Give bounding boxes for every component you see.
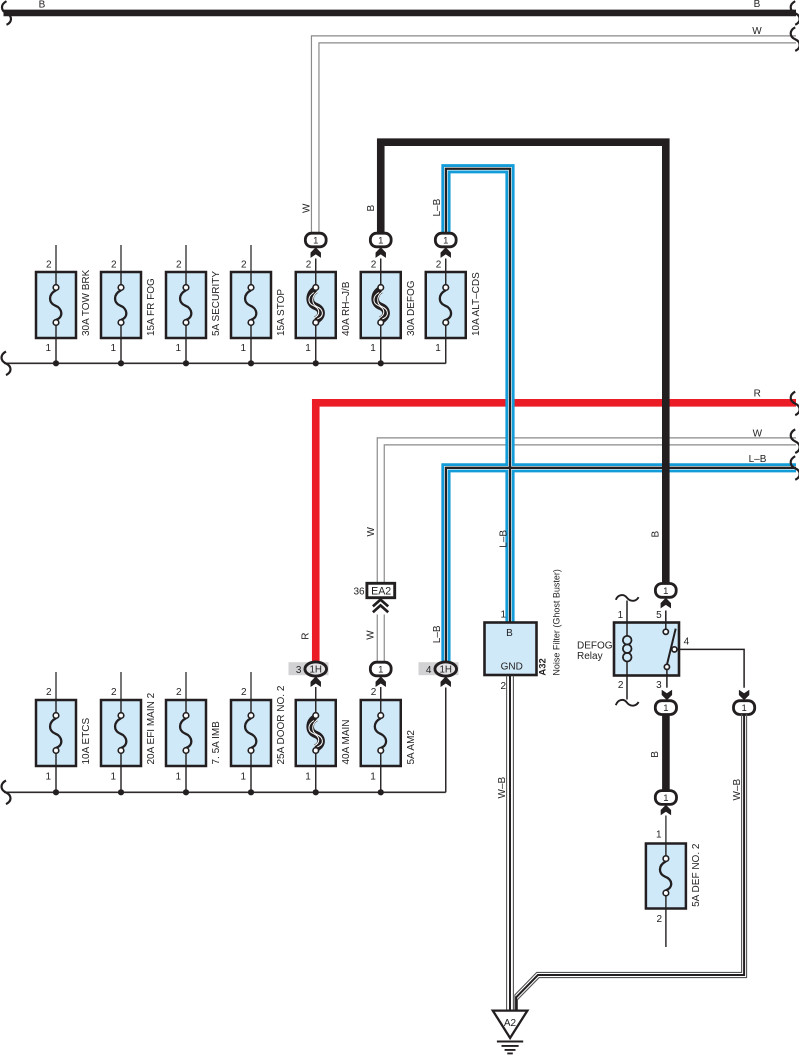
svg-text:L–B: L–B xyxy=(499,530,510,548)
wire L-B from 10A ALT-CDS to noise filter xyxy=(446,169,510,623)
fuse 5A AM2 xyxy=(361,687,417,792)
junction dot xyxy=(183,789,189,795)
svg-text:5A SECURITY: 5A SECURITY xyxy=(211,271,222,336)
svg-text:W–B: W–B xyxy=(732,779,743,801)
junction dot xyxy=(378,789,384,795)
wire W-B right to ground xyxy=(515,714,747,1011)
connector 4 1H (L-B wire) xyxy=(419,662,459,676)
svg-text:1: 1 xyxy=(240,771,246,782)
noise filter A32 box xyxy=(485,623,537,676)
connector 1 (W wire bottom) xyxy=(370,662,391,676)
svg-text:1: 1 xyxy=(45,771,51,782)
svg-text:L–B: L–B xyxy=(749,454,767,465)
svg-text:5A DEF NO. 2: 5A DEF NO. 2 xyxy=(691,843,702,907)
svg-text:1: 1 xyxy=(370,343,376,354)
svg-text:1: 1 xyxy=(618,610,624,621)
svg-text:15A STOP: 15A STOP xyxy=(276,289,287,336)
svg-text:36: 36 xyxy=(353,587,365,598)
relay DEFOG box xyxy=(577,623,679,676)
arrow down above pin3 connector xyxy=(662,690,672,701)
svg-text:1: 1 xyxy=(378,664,383,675)
svg-text:1: 1 xyxy=(500,610,506,621)
arrow up below 3 1H xyxy=(311,676,321,687)
L-B black cores xyxy=(446,468,796,663)
fuse 30A DEFOG xyxy=(361,259,417,364)
junction dot xyxy=(53,360,59,366)
svg-text:Noise Filter (Ghost Buster): Noise Filter (Ghost Buster) xyxy=(552,569,562,676)
svg-text:2: 2 xyxy=(371,260,377,271)
arrow up below connector xyxy=(661,805,671,816)
svg-text:1: 1 xyxy=(175,343,181,354)
connector 1 above fuse col (W wire) xyxy=(305,233,326,247)
relay pin 4 contact and wire right xyxy=(672,647,677,652)
wire B top bus xyxy=(4,0,797,13)
svg-text:W: W xyxy=(302,203,313,213)
svg-text:2: 2 xyxy=(241,260,247,271)
svg-text:2: 2 xyxy=(46,687,52,698)
svg-text:1: 1 xyxy=(240,343,246,354)
svg-text:40A RH–J/B: 40A RH–J/B xyxy=(341,281,352,336)
svg-text:2: 2 xyxy=(371,687,377,698)
arrow down above right connector xyxy=(739,690,749,701)
svg-text:B: B xyxy=(506,628,513,639)
relay coil xyxy=(623,636,632,662)
break symbol top B bus right xyxy=(791,1,799,25)
svg-text:3: 3 xyxy=(296,665,302,676)
svg-text:2: 2 xyxy=(618,680,624,691)
svg-text:20A EFI MAIN 2: 20A EFI MAIN 2 xyxy=(146,692,157,764)
junction dot xyxy=(118,789,124,795)
break symbol bottom bus left xyxy=(2,781,11,805)
svg-text:B: B xyxy=(366,205,377,212)
fuse 25A DOOR NO. 2 xyxy=(231,672,287,792)
junction dot xyxy=(378,360,384,366)
svg-text:1: 1 xyxy=(663,703,668,714)
svg-text:2: 2 xyxy=(176,687,182,698)
junction dot xyxy=(248,360,254,366)
svg-text:A2: A2 xyxy=(504,1018,517,1029)
svg-text:B: B xyxy=(650,751,661,758)
L-B white inner stripes xyxy=(446,468,796,663)
svg-text:15A FR FOG: 15A FR FOG xyxy=(146,278,157,336)
svg-text:1: 1 xyxy=(313,235,318,246)
connector 1 above fuse col (L-B wire) xyxy=(435,233,456,247)
svg-text:1: 1 xyxy=(663,586,668,597)
svg-text:2: 2 xyxy=(111,687,117,698)
svg-text:B: B xyxy=(754,0,761,10)
arrow up below connector 1 xyxy=(376,676,386,687)
arrow up below connector xyxy=(441,247,451,258)
wire W-B from noise filter GND to ground xyxy=(497,676,514,1011)
svg-text:1H: 1H xyxy=(439,665,452,676)
fuse 30A TOW BRK xyxy=(36,245,92,364)
junction dot xyxy=(313,360,319,366)
relay pin 2 wire and break xyxy=(626,661,628,699)
svg-text:2: 2 xyxy=(306,260,312,271)
svg-text:1: 1 xyxy=(370,771,376,782)
svg-text:7. 5A IMB: 7. 5A IMB xyxy=(211,721,222,765)
fuse 40A MAIN xyxy=(296,687,352,792)
svg-text:B: B xyxy=(651,531,662,538)
svg-text:L–B: L–B xyxy=(432,625,443,643)
svg-text:2: 2 xyxy=(656,914,662,925)
svg-text:4: 4 xyxy=(426,665,432,676)
svg-text:25A DOOR NO. 2: 25A DOOR NO. 2 xyxy=(276,685,287,764)
junction dot xyxy=(183,360,189,366)
wire to 5A DEF NO.2 xyxy=(665,816,667,844)
svg-text:1: 1 xyxy=(378,235,383,246)
svg-text:30A DEFOG: 30A DEFOG xyxy=(406,280,417,336)
connector 3 1H (R wire) xyxy=(289,662,329,676)
svg-text:W–B: W–B xyxy=(497,777,508,799)
arrow up below relay pin5 connector xyxy=(661,598,671,609)
svg-text:2: 2 xyxy=(111,260,117,271)
connector 1 right (W-B) xyxy=(734,701,755,715)
break symbol top bus left xyxy=(2,352,11,376)
connector EA2 (36) xyxy=(353,583,394,597)
EA2 double chevron xyxy=(373,600,388,613)
svg-text:40A MAIN: 40A MAIN xyxy=(341,719,352,764)
break symbol top W right xyxy=(791,27,799,51)
svg-text:R: R xyxy=(754,389,761,400)
svg-text:10A ALT–CDS: 10A ALT–CDS xyxy=(471,272,482,336)
svg-text:1: 1 xyxy=(175,771,181,782)
svg-text:1: 1 xyxy=(305,771,311,782)
junction dot xyxy=(248,789,254,795)
svg-text:W: W xyxy=(366,527,377,537)
fuse 7. 5A IMB xyxy=(166,672,222,792)
fuse 40A RH–J/B xyxy=(296,259,352,364)
fuse 5A DEF NO. 2 xyxy=(646,843,702,947)
relay switch blade xyxy=(667,629,676,665)
svg-text:1: 1 xyxy=(741,703,746,714)
break symbol R right xyxy=(791,392,799,416)
connector 1 at relay pin 5 xyxy=(655,584,676,598)
break symbol W middle right xyxy=(791,429,799,453)
fuse 15A FR FOG xyxy=(101,245,157,364)
fuse 15A STOP xyxy=(231,245,287,364)
svg-text:1: 1 xyxy=(656,829,662,840)
svg-text:B: B xyxy=(39,0,46,11)
wire B thick from 30A DEFOG to DEFOG relay pin 5 xyxy=(381,142,666,584)
fuse 5A SECURITY xyxy=(166,245,222,364)
relay pin 3 contact xyxy=(664,664,669,669)
svg-text:1: 1 xyxy=(663,793,668,804)
svg-text:A32: A32 xyxy=(538,658,549,675)
fuse 10A ALT–CDS xyxy=(426,259,482,364)
svg-text:1: 1 xyxy=(45,343,51,354)
svg-text:5: 5 xyxy=(656,610,662,621)
wire W middle from EA2 to right edge xyxy=(366,428,796,583)
arrow up below connector xyxy=(376,247,386,258)
junction dot xyxy=(313,789,319,795)
arrow up below 4 1H xyxy=(441,676,451,687)
wire from 4 1H down to bottom bus xyxy=(445,688,447,793)
svg-text:EA2: EA2 xyxy=(371,586,391,598)
svg-text:W: W xyxy=(752,26,762,37)
ground A2 xyxy=(493,1011,528,1054)
svg-text:3: 3 xyxy=(656,680,662,691)
svg-text:10A ETCS: 10A ETCS xyxy=(81,717,92,764)
relay pin 5 contact and switch xyxy=(665,611,667,630)
svg-text:1: 1 xyxy=(110,343,116,354)
svg-text:1H: 1H xyxy=(309,665,322,676)
svg-text:R: R xyxy=(301,632,312,639)
wire L-B middle from 4 1H connector to right edge xyxy=(432,454,796,662)
fuse 10A ETCS xyxy=(36,672,92,792)
wire bottom fuse bus xyxy=(4,791,446,793)
connector 1 above fuse col (B wire) xyxy=(370,233,391,247)
connector 1 below relay pin 3 xyxy=(655,701,676,715)
svg-text:2: 2 xyxy=(241,687,247,698)
svg-text:2: 2 xyxy=(500,681,506,692)
svg-text:1: 1 xyxy=(110,771,116,782)
wire W below EA2 to connector xyxy=(377,615,384,663)
svg-text:W: W xyxy=(753,428,763,439)
break symbol top B bus left xyxy=(2,1,11,25)
svg-text:2: 2 xyxy=(46,260,52,271)
connector 1 above 5A DEF NO.2 xyxy=(655,791,676,805)
svg-text:30A TOW BRK: 30A TOW BRK xyxy=(81,269,92,336)
break symbol L-B right xyxy=(791,456,799,480)
svg-text:1: 1 xyxy=(305,343,311,354)
svg-text:GND: GND xyxy=(501,662,523,673)
arrow up below connector xyxy=(311,247,321,258)
relay pin 1 wire and break xyxy=(626,601,628,637)
wire B thick relay pin3 to 5A DEF NO.2 xyxy=(650,714,666,791)
wire W from fuse 40A RH-J/B up and to right edge xyxy=(311,26,796,234)
junction dot xyxy=(118,360,124,366)
fuse 20A EFI MAIN 2 xyxy=(101,672,157,792)
wire R red from 25A DOOR NO.2 row connector to right edge xyxy=(301,389,796,663)
svg-text:1: 1 xyxy=(435,343,441,354)
junction dot xyxy=(53,789,59,795)
svg-text:W: W xyxy=(365,630,376,640)
wire top fuse bus xyxy=(4,362,446,364)
svg-text:2: 2 xyxy=(436,260,442,271)
svg-text:Relay: Relay xyxy=(577,651,603,662)
svg-text:2: 2 xyxy=(176,260,182,271)
svg-text:1: 1 xyxy=(443,235,448,246)
svg-text:4: 4 xyxy=(684,636,690,647)
svg-text:5A AM2: 5A AM2 xyxy=(406,730,417,765)
